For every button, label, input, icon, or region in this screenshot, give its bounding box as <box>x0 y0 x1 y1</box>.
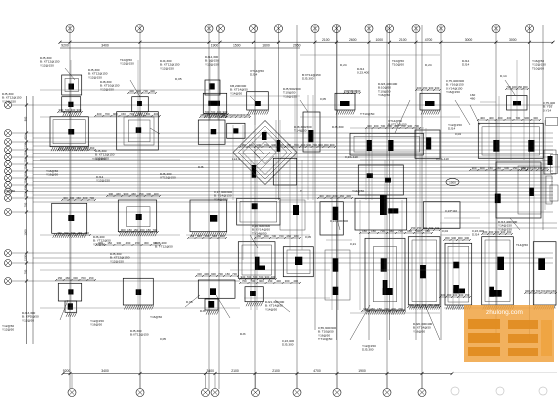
svg-text:0,05: 0,05 <box>320 97 326 101</box>
svg-text:150: 150 <box>512 166 517 170</box>
svg-text:900: 900 <box>472 166 477 170</box>
svg-text:150: 150 <box>268 279 273 283</box>
svg-text:0,05: 0,05 <box>160 337 166 341</box>
svg-text:9200: 9200 <box>63 369 71 373</box>
svg-text:400: 400 <box>63 196 68 200</box>
svg-text:300: 300 <box>453 293 458 297</box>
footing large A2 <box>52 203 87 238</box>
svg-text:300: 300 <box>324 143 329 147</box>
footing large B2 nested <box>117 112 159 150</box>
svg-text:400: 400 <box>271 275 276 279</box>
svg-text:400: 400 <box>409 303 414 307</box>
svg-text:900: 900 <box>495 230 500 234</box>
footing tiny A4 <box>65 301 77 317</box>
svg-text:zhulong.com: zhulong.com <box>486 309 523 316</box>
extra annotation texts <box>5 149 457 249</box>
footing D2 <box>227 123 245 138</box>
svg-text:DJ5,300: DJ5,300 <box>332 125 344 129</box>
svg-text:3400: 3400 <box>101 369 109 373</box>
svg-text:150: 150 <box>139 192 144 196</box>
svg-text:700: 700 <box>218 272 223 276</box>
grid horizontal lines <box>33 105 557 281</box>
svg-text:900: 900 <box>77 108 82 112</box>
svg-text:700: 700 <box>71 146 76 150</box>
svg-text:460: 460 <box>59 146 64 150</box>
svg-text:460: 460 <box>294 234 299 238</box>
svg-text:DJ14: DJ14 <box>250 73 258 77</box>
svg-text:Y14@50: Y14@50 <box>352 189 364 193</box>
svg-text:400: 400 <box>205 234 210 238</box>
svg-text:460: 460 <box>84 231 89 235</box>
svg-text:1000: 1000 <box>375 38 383 42</box>
svg-text:460: 460 <box>64 231 69 235</box>
svg-text:2100: 2100 <box>399 38 407 42</box>
svg-text:300: 300 <box>146 192 151 196</box>
svg-text:150: 150 <box>189 234 194 238</box>
footing DJ5 second <box>62 97 82 117</box>
svg-text:Y12@150: Y12@150 <box>96 179 110 183</box>
svg-text:300: 300 <box>538 166 543 170</box>
faint bottom-right bubbles <box>451 373 557 396</box>
svg-text:0,23,400: 0,23,400 <box>357 71 369 75</box>
svg-text:700: 700 <box>414 124 419 128</box>
svg-text:700: 700 <box>211 110 216 114</box>
svg-text:300: 300 <box>543 166 548 170</box>
svg-text:300: 300 <box>533 116 538 120</box>
svg-text:T10@50: T10@50 <box>392 63 404 67</box>
svg-text:700: 700 <box>105 112 110 116</box>
svg-text:300: 300 <box>71 108 76 112</box>
svg-text:0,23+110: 0,23+110 <box>345 155 358 159</box>
svg-text:900: 900 <box>113 112 118 116</box>
svg-text:900: 900 <box>318 143 323 147</box>
footing C1 <box>205 80 220 95</box>
svg-text:150: 150 <box>140 228 145 232</box>
svg-text:150: 150 <box>551 289 556 293</box>
svg-text:150: 150 <box>465 293 470 297</box>
svg-text:700: 700 <box>398 229 403 233</box>
grid vertical lines (full height) <box>70 25 422 389</box>
svg-text:DJ3: DJ3 <box>200 309 206 313</box>
svg-text:400: 400 <box>217 110 222 114</box>
svg-text:460: 460 <box>264 234 269 238</box>
diagonal footing (rotated square) <box>233 121 297 185</box>
footing B1 <box>132 97 149 117</box>
svg-text:700: 700 <box>279 234 284 238</box>
svg-text:4700: 4700 <box>425 38 433 42</box>
svg-text:150: 150 <box>89 276 94 280</box>
footing D3 top <box>237 198 280 225</box>
svg-text:150: 150 <box>411 226 416 230</box>
svg-text:460: 460 <box>447 293 452 297</box>
svg-text:1500: 1500 <box>233 44 241 48</box>
svg-text:150: 150 <box>532 166 537 170</box>
svg-text:400: 400 <box>65 146 70 150</box>
svg-text:700: 700 <box>23 151 27 156</box>
svg-text:B:XT12@150: B:XT12@150 <box>130 333 149 337</box>
svg-text:400: 400 <box>512 85 517 89</box>
svg-text:900: 900 <box>271 143 276 147</box>
svg-text:700: 700 <box>23 269 27 274</box>
svg-text:460: 460 <box>370 307 375 311</box>
svg-text:300: 300 <box>73 276 78 280</box>
svg-text:3400: 3400 <box>206 369 214 373</box>
svg-text:400: 400 <box>276 279 281 283</box>
bottom dimension line <box>62 369 454 375</box>
left grid bubbles <box>5 102 34 285</box>
footing C4 <box>190 200 227 236</box>
svg-text:150: 150 <box>423 86 428 90</box>
svg-text:400: 400 <box>489 116 494 120</box>
footing G2 <box>415 130 440 158</box>
secondary horizontal lines <box>40 55 560 313</box>
svg-text:DJ14: DJ14 <box>448 127 456 131</box>
svg-text:3400: 3400 <box>101 44 109 48</box>
ellipse hole mark <box>446 178 459 185</box>
svg-text:700: 700 <box>264 143 269 147</box>
svg-text:700: 700 <box>145 112 150 116</box>
svg-text:900: 900 <box>124 192 129 196</box>
svg-text:400: 400 <box>83 196 88 200</box>
footing C5 <box>198 280 235 298</box>
footing G6 tall <box>408 237 440 310</box>
svg-text:Y12@150: Y12@150 <box>95 156 109 160</box>
svg-text:900: 900 <box>98 241 103 245</box>
svg-text:Y14@50: Y14@50 <box>230 91 242 95</box>
svg-text:900: 900 <box>330 143 335 147</box>
svg-text:900: 900 <box>459 293 464 297</box>
svg-text:460: 460 <box>116 192 121 196</box>
svg-text:400: 400 <box>154 112 159 116</box>
footing small A3 <box>58 283 81 301</box>
footing G5 <box>358 165 403 195</box>
svg-text:300: 300 <box>108 192 113 196</box>
svg-text:0,23*110: 0,23*110 <box>445 209 457 213</box>
tiny annotation text blocks <box>2 55 555 341</box>
svg-text:Y16@150: Y16@150 <box>446 90 460 94</box>
secondary vertical lines <box>71 60 545 315</box>
svg-text:460: 460 <box>498 116 503 120</box>
svg-text:900: 900 <box>279 143 284 147</box>
grid vertical lines (upper) <box>279 25 544 340</box>
svg-text:400: 400 <box>23 135 27 140</box>
svg-text:150: 150 <box>371 229 376 233</box>
svg-text:Y16@50: Y16@50 <box>90 323 102 327</box>
svg-text:700: 700 <box>242 279 247 283</box>
svg-text:150: 150 <box>286 143 291 147</box>
svg-text:460: 460 <box>256 234 261 238</box>
svg-text:Y12@150: Y12@150 <box>110 259 124 263</box>
svg-text:150: 150 <box>245 113 250 117</box>
svg-text:460: 460 <box>65 276 70 280</box>
svg-text:400: 400 <box>367 124 372 128</box>
svg-text:900: 900 <box>256 143 261 147</box>
svg-text:Y16@50: Y16@50 <box>150 315 162 319</box>
svg-text:460: 460 <box>241 143 246 147</box>
footing E1 <box>303 112 320 152</box>
footing large A1 <box>50 117 89 152</box>
small rects right edge <box>546 117 558 204</box>
svg-text:700: 700 <box>71 231 76 235</box>
svg-text:400: 400 <box>417 86 422 90</box>
svg-text:150: 150 <box>107 241 112 245</box>
svg-text:Y16@50: Y16@50 <box>378 93 390 97</box>
svg-text:300: 300 <box>441 293 446 297</box>
svg-text:900: 900 <box>458 236 463 240</box>
svg-text:LL2,4: LL2,4 <box>232 157 240 161</box>
svg-text:300: 300 <box>197 272 202 276</box>
additional scattered annotation texts <box>46 58 546 352</box>
svg-text:150: 150 <box>417 226 422 230</box>
svg-text:700: 700 <box>129 112 134 116</box>
svg-text:D,24: D,24 <box>425 63 432 67</box>
svg-text:9200: 9200 <box>61 44 69 48</box>
svg-text:Y12@150: Y12@150 <box>40 63 54 67</box>
svg-text:900: 900 <box>265 275 270 279</box>
svg-text:700: 700 <box>294 143 299 147</box>
svg-text:900: 900 <box>23 116 27 121</box>
footing H2 <box>423 202 460 229</box>
svg-text:460: 460 <box>90 146 95 150</box>
svg-text:700: 700 <box>23 202 27 207</box>
svg-text:400: 400 <box>97 112 102 116</box>
svg-text:900: 900 <box>241 275 246 279</box>
svg-text:400: 400 <box>301 143 306 147</box>
svg-text:900: 900 <box>23 172 27 177</box>
svg-text:700: 700 <box>398 307 403 311</box>
svg-text:1500: 1500 <box>449 181 456 185</box>
footing J3 nested right-mid <box>495 162 541 218</box>
svg-text:700: 700 <box>89 196 94 200</box>
svg-text:460: 460 <box>489 230 494 234</box>
svg-text:DJ14: DJ14 <box>472 233 480 237</box>
svg-text:150: 150 <box>127 228 132 232</box>
svg-text:460: 460 <box>76 196 81 200</box>
bottom grid bubbles <box>68 374 426 397</box>
svg-text:400: 400 <box>23 186 27 191</box>
svg-text:900: 900 <box>306 143 311 147</box>
svg-text:900: 900 <box>527 166 532 170</box>
svg-text:B: YT12@50: B: YT12@50 <box>155 245 173 249</box>
svg-text:Y16@50: Y16@50 <box>46 173 58 177</box>
svg-text:300: 300 <box>445 236 450 240</box>
svg-text:150: 150 <box>423 226 428 230</box>
svg-text:300: 300 <box>434 303 439 307</box>
svg-text:150: 150 <box>77 231 82 235</box>
column bar D6 <box>252 165 256 178</box>
footing F1 <box>335 93 355 114</box>
svg-text:700: 700 <box>23 179 27 184</box>
svg-text:0,04: 0,04 <box>455 132 461 136</box>
svg-text:700: 700 <box>380 229 385 233</box>
svg-text:DJ6: DJ6 <box>198 165 204 169</box>
svg-text:700: 700 <box>23 165 27 170</box>
footing G3 top <box>355 195 407 230</box>
svg-text:150: 150 <box>521 166 526 170</box>
footing DJ5 top-left <box>62 75 82 95</box>
svg-text:400: 400 <box>150 89 155 93</box>
svg-text:700: 700 <box>23 192 27 197</box>
svg-text:2100: 2100 <box>322 38 330 42</box>
svg-text:300: 300 <box>326 194 331 198</box>
svg-text:300: 300 <box>356 89 361 93</box>
footing E2 <box>283 247 313 277</box>
svg-text:3000: 3000 <box>465 38 473 42</box>
svg-text:0:Y14: 0:Y14 <box>543 108 551 112</box>
svg-text:700: 700 <box>429 226 434 230</box>
svg-text:0,21: 0,21 <box>350 242 356 246</box>
svg-text:460: 460 <box>339 194 344 198</box>
svg-text:B:XT12@150: B:XT12@150 <box>388 123 407 127</box>
svg-text:400: 400 <box>319 194 324 198</box>
svg-text:1500: 1500 <box>23 143 27 149</box>
svg-text:0,04: 0,04 <box>442 229 448 233</box>
svg-text:0,23,400/300: 0,23,400/300 <box>330 219 348 223</box>
svg-text:460: 460 <box>249 143 254 147</box>
svg-text:460: 460 <box>154 192 159 196</box>
svg-text:0,05: 0,05 <box>305 235 311 239</box>
svg-text:460: 460 <box>126 241 131 245</box>
svg-text:900: 900 <box>429 86 434 90</box>
svg-text:700: 700 <box>428 303 433 307</box>
footing B3 nested <box>118 200 157 236</box>
svg-text:900: 900 <box>121 228 126 232</box>
top dimension line with ticks and values <box>59 38 555 48</box>
svg-text:400: 400 <box>346 194 351 198</box>
svg-text:460: 460 <box>131 192 136 196</box>
footing J1 top-right <box>507 96 528 111</box>
svg-text:2950: 2950 <box>293 44 301 48</box>
svg-text:1900: 1900 <box>358 369 366 373</box>
footing E3 <box>273 158 296 185</box>
svg-text:0,03+110: 0,03+110 <box>436 157 449 161</box>
svg-text:700: 700 <box>232 272 237 276</box>
svg-text:700: 700 <box>381 124 386 128</box>
svg-text:900: 900 <box>451 236 456 240</box>
svg-text:Y12@50: Y12@50 <box>22 318 34 322</box>
svg-text:XT12@150: XT12@150 <box>160 176 176 180</box>
svg-text:Y12@150: Y12@150 <box>88 75 102 79</box>
svg-text:150: 150 <box>517 85 522 89</box>
svg-text:400: 400 <box>204 272 209 276</box>
svg-text:150: 150 <box>377 307 382 311</box>
footing K1 tall <box>445 243 472 309</box>
svg-text:DJ14: DJ14 <box>462 63 470 67</box>
column bar E4 <box>280 200 305 230</box>
svg-text:150: 150 <box>146 228 151 232</box>
svg-text:DJ5,300: DJ5,300 <box>302 77 314 81</box>
svg-text:150: 150 <box>488 166 493 170</box>
svg-text:T:T10@50: T:T10@50 <box>318 337 333 341</box>
svg-text:700: 700 <box>516 116 521 120</box>
wide footing J2 <box>478 123 543 158</box>
svg-text:D,24: D,24 <box>340 63 347 67</box>
svg-text:460: 460 <box>507 230 512 234</box>
svg-text:T14@50: T14@50 <box>516 243 528 247</box>
svg-text:Y12@150: Y12@150 <box>160 66 174 70</box>
svg-text:900: 900 <box>408 124 413 128</box>
svg-text:900: 900 <box>77 146 82 150</box>
svg-text:Y14@50: Y14@50 <box>265 307 277 311</box>
svg-text:1600: 1600 <box>262 44 270 48</box>
svg-text:700: 700 <box>81 276 86 280</box>
footing D1 <box>247 92 269 115</box>
svg-text:Y14@150: Y14@150 <box>214 197 228 201</box>
svg-text:Y12@50: Y12@50 <box>2 328 14 332</box>
svg-text:T:14@50: T:14@50 <box>294 129 307 133</box>
svg-text:700: 700 <box>143 89 148 93</box>
svg-text:150: 150 <box>362 229 367 233</box>
svg-text:150: 150 <box>135 241 140 245</box>
svg-text:700: 700 <box>205 110 210 114</box>
svg-text:D,14: D,14 <box>500 74 507 78</box>
svg-text:D,05: D,05 <box>175 77 182 81</box>
svg-text:2100: 2100 <box>231 369 239 373</box>
svg-text:DJ5,300: DJ5,300 <box>282 343 294 347</box>
svg-text:700: 700 <box>152 228 157 232</box>
svg-text:700: 700 <box>271 234 276 238</box>
svg-text:300: 300 <box>374 124 379 128</box>
svg-text:900: 900 <box>211 272 216 276</box>
svg-text:300: 300 <box>117 241 122 245</box>
svg-text:300: 300 <box>435 86 440 90</box>
svg-text:400: 400 <box>480 116 485 120</box>
top grid bubbles <box>66 25 534 33</box>
column bars F3 <box>325 250 350 300</box>
footing large C3 <box>198 120 225 144</box>
orange watermark <box>464 305 554 362</box>
svg-text:300: 300 <box>464 236 469 240</box>
wide footing G1 <box>350 133 423 155</box>
svg-text:150: 150 <box>58 276 63 280</box>
svg-text:460: 460 <box>286 234 291 238</box>
svg-text:900: 900 <box>197 234 202 238</box>
left dimension line <box>23 96 33 344</box>
svg-text:T:T10@50: T:T10@50 <box>360 112 375 116</box>
leader lines <box>60 68 520 340</box>
footing tiny C6 <box>205 299 219 315</box>
svg-text:Y12@150: Y12@150 <box>205 62 219 66</box>
footing G4 tall nested <box>365 238 406 314</box>
svg-text:400: 400 <box>435 226 440 230</box>
footing F2 tall <box>320 202 343 235</box>
svg-text:2600: 2600 <box>349 38 357 42</box>
svg-text:700: 700 <box>259 275 264 279</box>
svg-text:300: 300 <box>285 279 290 283</box>
svg-text:900: 900 <box>83 146 88 150</box>
svg-text:400: 400 <box>480 166 485 170</box>
svg-text:DJ3: DJ3 <box>240 332 246 336</box>
svg-text:900: 900 <box>59 108 64 112</box>
svg-text:T10@50: T10@50 <box>532 66 544 70</box>
svg-text:Y12@150: Y12@150 <box>100 87 114 91</box>
footing D4 nested L <box>238 242 275 279</box>
svg-text:Y16@50: Y16@50 <box>413 329 425 333</box>
svg-text:300: 300 <box>212 234 217 238</box>
svg-text:1500: 1500 <box>23 229 27 235</box>
svg-text:2100: 2100 <box>272 369 280 373</box>
footing B4 <box>123 278 153 309</box>
small dimension tick rows <box>55 85 557 312</box>
svg-text:460: 460 <box>470 97 475 101</box>
svg-text:3000: 3000 <box>509 38 517 42</box>
svg-text:1900: 1900 <box>211 44 219 48</box>
svg-text:150: 150 <box>121 112 126 116</box>
svg-text:400: 400 <box>333 194 338 198</box>
footing K2 tall <box>482 237 514 310</box>
footing C2 <box>203 93 227 118</box>
svg-text:150: 150 <box>415 303 420 307</box>
